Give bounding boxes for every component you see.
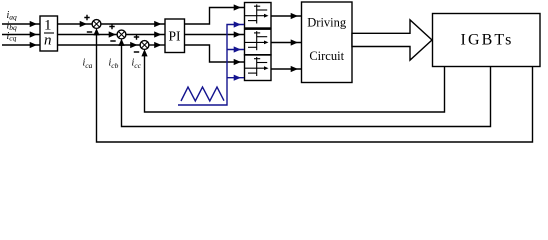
svg-text:PI: PI [168, 29, 181, 44]
svg-text:IGBTs: IGBTs [461, 32, 514, 49]
svg-text:1: 1 [44, 18, 52, 34]
svg-text:ica: ica [83, 58, 93, 71]
svg-text:icb: icb [109, 58, 119, 71]
svg-text:Circuit: Circuit [309, 49, 344, 63]
svg-text:Driving: Driving [307, 16, 347, 30]
svg-text:icc: icc [132, 58, 142, 71]
svg-text:n: n [44, 33, 52, 49]
svg-text:icq: icq [7, 31, 17, 43]
